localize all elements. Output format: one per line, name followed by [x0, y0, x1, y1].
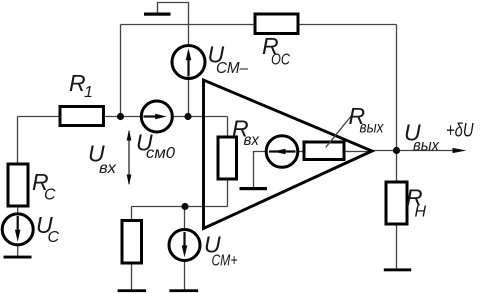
wire Rvx top stem [227, 117, 229, 138]
wire output line [372, 150, 455, 152]
resistor Rn [386, 182, 407, 224]
ground R2 [118, 289, 147, 292]
source internal circle [266, 136, 298, 168]
wire ground stem over to Ucm- [158, 3, 189, 46]
source Uc arrow [17, 216, 19, 230]
source Ucm+ circle [169, 230, 200, 261]
svg-text:ОС: ОС [271, 52, 290, 69]
svg-text:вых: вых [360, 120, 385, 137]
wire Rn bottom to ground [396, 224, 398, 269]
wire internal source to ground [254, 152, 268, 188]
svg-text:СМ+: СМ+ [212, 253, 238, 270]
wire lower rail [132, 206, 228, 208]
resistor RC [8, 164, 28, 206]
node C junction dot [181, 203, 188, 210]
svg-text:вх: вх [244, 132, 260, 149]
node A junction dot [117, 113, 124, 120]
resistor Roc [255, 14, 298, 34]
wire Uc bottom to ground [17, 245, 19, 256]
resistor R2 unlabeled [122, 221, 142, 264]
node B junction dot [184, 113, 191, 120]
leader line Rvyx label [326, 114, 353, 147]
output arrow [453, 148, 467, 153]
source Ucm0 arrow [144, 115, 159, 117]
svg-text:С: С [48, 229, 60, 246]
wire left column horizontal to R1 [18, 116, 61, 118]
wire left column vertical down to RC [17, 117, 19, 165]
wire main line into amplifier [172, 116, 228, 118]
svg-text:вх: вх [99, 160, 117, 177]
resistor Rvyx [304, 142, 344, 160]
svg-text:Н: Н [415, 204, 427, 221]
ground Rn [384, 268, 411, 271]
source Uc circle [2, 214, 33, 245]
svg-text:1: 1 [84, 84, 93, 101]
wire Rvx bottom stem [227, 179, 229, 207]
svg-text:см0: см0 [146, 145, 175, 162]
wire node A up to feedback rail [120, 25, 122, 117]
wire Rvyx to apex [344, 151, 372, 153]
wire R1 right to node A [104, 116, 143, 118]
wire node C down to Ucm+ [184, 207, 186, 230]
wire lower rail down to R2 [131, 207, 133, 221]
wire Ucm- bottom to node B [188, 79, 190, 117]
node out junction dot [393, 147, 400, 154]
wire feedback rail right of Roc [298, 24, 397, 26]
source internal arrow [269, 150, 296, 152]
dimension arrow Uvx [128, 131, 130, 184]
resistor R1 [60, 107, 104, 126]
source Ucm0 circle [141, 101, 172, 132]
svg-text:С: С [44, 187, 56, 204]
svg-text:СМ–: СМ– [216, 60, 248, 77]
source Ucm- arrow [187, 58, 189, 77]
wire Ucm+ bottom to ground [184, 261, 186, 290]
ground internal [240, 187, 268, 190]
wire RC bottom to Uc [17, 206, 19, 214]
op-amp U1 triangle [204, 80, 373, 229]
resistor Rvx [218, 137, 237, 179]
wire internal source to Rvyx [298, 151, 305, 153]
wire feedback rail down to output node [396, 25, 398, 151]
wire output node down to Rn [396, 151, 398, 183]
ground Ucm+ [169, 289, 198, 292]
svg-text:+δU: +δU [446, 121, 474, 142]
wire R2 bottom to ground [131, 263, 133, 290]
ground Uc [4, 256, 32, 259]
source Ucm+ arrow [183, 232, 185, 246]
source Ucm- circle [172, 46, 205, 79]
svg-text:вых: вых [413, 138, 440, 155]
wire feedback rail left of Roc [121, 24, 256, 26]
ground top [144, 13, 171, 16]
